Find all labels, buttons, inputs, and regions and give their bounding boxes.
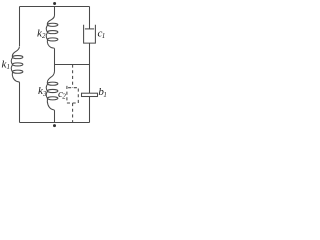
svg-text:3: 3 (42, 90, 47, 98)
wire dashed c2 bottom (72, 103, 74, 123)
node top junction dot (53, 2, 56, 5)
node bottom junction dot (53, 124, 56, 127)
wire left bottom (19, 82, 21, 122)
wire right bottom (89, 97, 91, 123)
svg-text:1: 1 (102, 32, 106, 40)
wire right middle (89, 43, 91, 93)
wire dashed c2 top (72, 65, 74, 88)
wire top (20, 6, 90, 8)
svg-text:2: 2 (62, 93, 66, 101)
wire middle (55, 64, 90, 66)
wire k2 top (54, 7, 56, 16)
spring k1 (11, 46, 19, 82)
damper b1 (82, 93, 98, 96)
wire k2 bottom (54, 49, 56, 65)
damper c1 (85, 28, 94, 30)
spring k2 (46, 16, 54, 49)
wire right top (89, 7, 91, 29)
damper c2 (dashed) (68, 87, 77, 89)
svg-text:1: 1 (7, 63, 11, 71)
svg-text:1: 1 (103, 91, 107, 99)
wire left top (19, 7, 21, 47)
svg-text:2: 2 (42, 32, 46, 40)
wire k3 top (54, 65, 56, 72)
wire bottom (20, 122, 90, 124)
wire k3 bottom (54, 110, 56, 122)
spring k3 (46, 72, 54, 111)
